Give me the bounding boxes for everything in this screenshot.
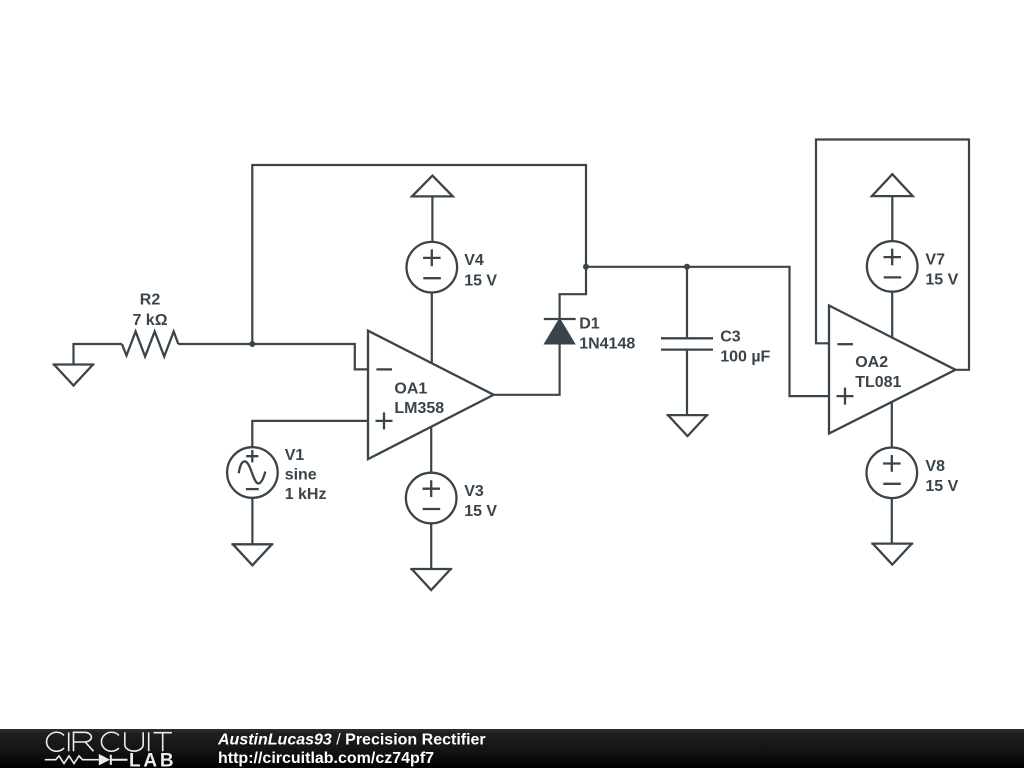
wire (OA2 bottom to V8) [891, 402, 893, 448]
svg-text:1N4148: 1N4148 [579, 336, 635, 353]
svg-text:V7: V7 [925, 251, 945, 268]
ground (left, at R2) [53, 365, 95, 386]
ground (below C3) [667, 415, 709, 436]
svg-text:15 V: 15 V [925, 271, 958, 288]
svg-text:15 V: 15 V [464, 503, 497, 520]
voltage source V1 (sine) [227, 447, 326, 503]
svg-text:D1: D1 [579, 316, 600, 333]
footer title text [217, 732, 486, 768]
wire (arrow to V4) [431, 196, 433, 241]
svg-text:15 V: 15 V [925, 478, 958, 495]
wire (node B to node C) [586, 266, 687, 268]
voltage source V3 [406, 473, 498, 524]
ground (below V1) [231, 544, 273, 565]
svg-text:15 V: 15 V [464, 272, 497, 289]
svg-text:sine: sine [285, 467, 317, 484]
wire (V1 to OA1 non-inverting input) [252, 421, 368, 447]
capacitor C3 [661, 328, 771, 365]
svg-text:OA1: OA1 [394, 380, 427, 397]
svg-text:100 µF: 100 µF [720, 349, 770, 366]
svg-text:http://circuitlab.com/cz74pf7: http://circuitlab.com/cz74pf7 [218, 750, 434, 767]
node B (D1 / feedback / output rail junction) [583, 264, 589, 270]
resistor R2 [122, 292, 178, 357]
svg-text:LM358: LM358 [394, 400, 444, 417]
wire (node C down to C3) [686, 267, 688, 339]
wire (R2 to OA1 inverting input, with step) [178, 344, 368, 369]
svg-text:7 kΩ: 7 kΩ [132, 312, 167, 329]
wire (node C to OA2 non-inverting input) [687, 267, 829, 396]
svg-text:LAB: LAB [129, 751, 176, 768]
wire (V3 to ground) [430, 524, 432, 569]
svg-text:C3: C3 [720, 328, 741, 345]
ground (below V3) [410, 569, 452, 590]
svg-text:OA2: OA2 [855, 354, 888, 371]
wire (feedback rail: node up, across top, down to D1 node) [252, 165, 586, 344]
node C (C3 junction) [684, 264, 690, 270]
svg-text:V3: V3 [464, 483, 484, 500]
voltage source V7 [867, 241, 959, 292]
wire (arrow to V7) [891, 196, 893, 242]
power arrow (V4 supply) [412, 176, 453, 197]
wire (V8 to ground) [891, 499, 893, 544]
svg-text:V4: V4 [464, 252, 484, 269]
op-amp OA1 [368, 331, 494, 459]
svg-text:AustinLucas93 / Precision Rect: AustinLucas93 / Precision Rectifier [217, 732, 486, 749]
power arrow (V7 supply) [872, 174, 913, 196]
wire (OA1 output to D1) [494, 344, 560, 395]
svg-text:R2: R2 [140, 292, 161, 309]
diode D1 [544, 316, 636, 353]
wire (V7 to OA2 top) [891, 292, 893, 337]
svg-text:V8: V8 [925, 458, 945, 475]
wire (OA2 output feedback loop to inverting input) [816, 140, 969, 370]
wire (OA1 bottom to V3) [430, 427, 432, 472]
voltage source V8 [867, 448, 959, 499]
ground (below V8) [871, 544, 913, 565]
wire (left ground to R2) [74, 344, 122, 365]
footer bar [0, 729, 1024, 768]
wire (V4 to OA1 top) [431, 293, 433, 363]
wire (V1 to ground) [251, 499, 253, 545]
svg-text:TL081: TL081 [855, 374, 901, 391]
node A (junction R2 / feedback) [249, 341, 255, 347]
wire (D1 cathode to node B, with step) [560, 267, 586, 319]
CircuitLab logo [45, 732, 177, 768]
op-amp OA2 [829, 306, 956, 434]
wire (C3 to ground) [686, 350, 688, 416]
svg-text:1 kHz: 1 kHz [285, 486, 327, 503]
voltage source V4 [407, 242, 498, 293]
svg-text:V1: V1 [285, 447, 305, 464]
